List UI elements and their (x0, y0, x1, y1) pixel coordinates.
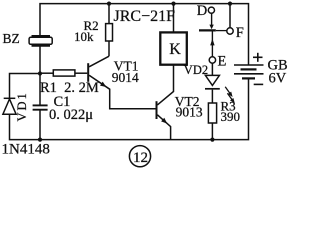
svg-text:R1 2. 2M: R1 2. 2M (40, 80, 99, 96)
svg-text:F: F (236, 25, 244, 41)
battery minus sign (254, 83, 264, 85)
LED VD2 (205, 75, 220, 88)
capacitor C1 (33, 105, 48, 109)
svg-text:12: 12 (133, 150, 148, 166)
diode VD1 (3, 98, 16, 114)
wire left branch BZ to node A (39, 46, 41, 105)
wire R3 bottom lead (211, 123, 213, 140)
svg-text:10k: 10k (74, 29, 94, 44)
junction dot R2 top (107, 2, 111, 6)
junction dot R3 bottom (210, 138, 214, 142)
contact bar (199, 29, 227, 31)
svg-text:JRC−21F: JRC−21F (114, 8, 176, 25)
resistor R1 (42, 70, 87, 76)
wire bottom rail (10, 79, 249, 140)
LED VD2 emission arrows (225, 87, 235, 104)
wire top rail (40, 4, 249, 65)
transistor VT2 (156, 101, 171, 139)
svg-text:D: D (197, 3, 207, 19)
svg-text:BZ: BZ (3, 31, 20, 46)
node A junction dot (38, 71, 42, 75)
svg-text:390: 390 (221, 109, 241, 124)
svg-text:1N4148: 1N4148 (2, 142, 50, 158)
wire E to VD2 (211, 63, 213, 75)
probe D arm with arrow (209, 13, 213, 29)
svg-text:6V: 6V (269, 71, 287, 87)
probe E arm with arrow (210, 32, 214, 57)
svg-text:0. 022μ: 0. 022μ (49, 107, 93, 123)
wire R2 top lead (108, 4, 110, 24)
svg-text:E: E (218, 53, 227, 69)
terminal F (227, 28, 233, 34)
terminal D (208, 7, 214, 13)
junction dot K top (171, 2, 175, 6)
svg-text:VD1: VD1 (15, 91, 29, 121)
svg-text:9014: 9014 (112, 70, 139, 85)
battery GB (234, 65, 264, 78)
figure number 12 (129, 146, 150, 167)
junction dot F top (228, 2, 232, 6)
wire VD2 to R3 (211, 90, 213, 103)
svg-text:K: K (169, 41, 181, 58)
wire K top lead (173, 4, 175, 33)
junction dot C1 bottom (38, 138, 42, 142)
wire C1 bottom (39, 110, 41, 140)
wire F branch vertical (229, 4, 231, 28)
wire K bottom to VT2 collector (157, 65, 173, 105)
svg-text:VD2: VD2 (184, 63, 208, 77)
buzzer BZ (29, 36, 52, 46)
relay K (160, 32, 187, 64)
resistor R3 (208, 103, 216, 123)
wire node A horizontal to VD1 (10, 74, 41, 99)
transistor VT1 (87, 56, 155, 108)
terminal E (209, 57, 215, 63)
resistor R2 (106, 24, 113, 57)
svg-text:9013: 9013 (176, 105, 203, 120)
battery plus sign (253, 53, 263, 62)
